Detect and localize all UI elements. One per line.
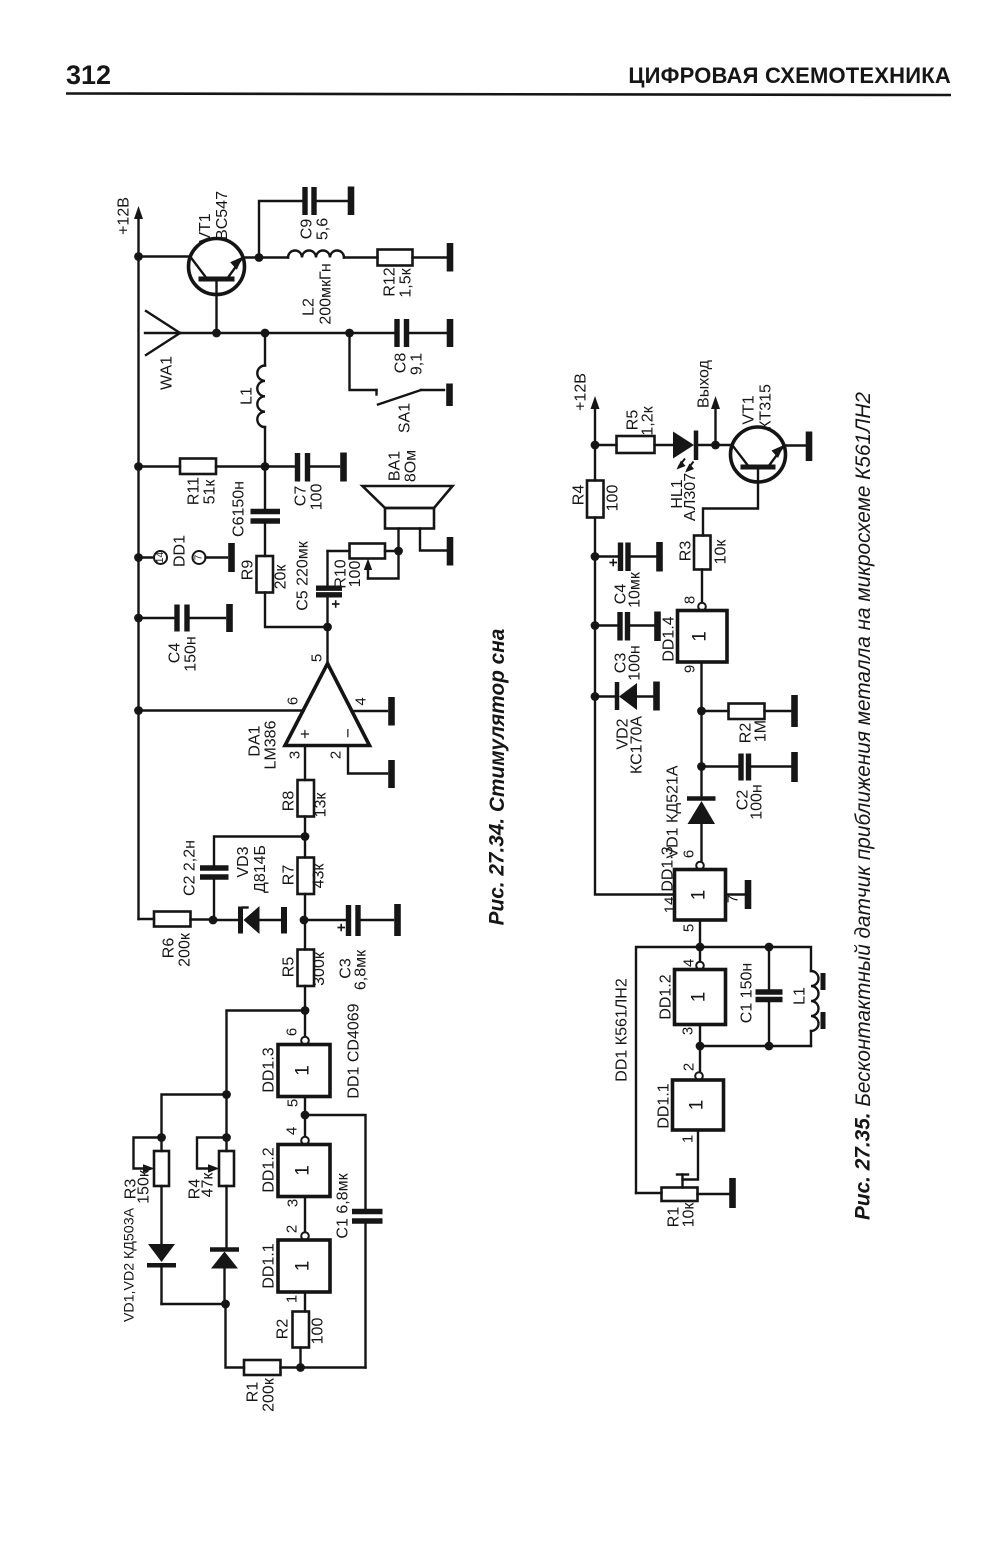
svg-text:8: 8 bbox=[682, 596, 699, 604]
svg-text:43к: 43к bbox=[311, 863, 328, 889]
svg-text:R9: R9 bbox=[240, 560, 257, 581]
svg-text:10к: 10к bbox=[713, 539, 730, 565]
svg-text:100: 100 bbox=[347, 561, 364, 588]
svg-text:VD1 КД521А: VD1 КД521А bbox=[665, 765, 682, 858]
inverter DD1.2 bbox=[278, 1115, 330, 1197]
resistor R2 1M bbox=[702, 704, 791, 720]
inverter DD1.2 bbox=[675, 947, 726, 1025]
svg-text:Выход: Выход bbox=[696, 359, 713, 408]
ground DD1 pin7 bbox=[228, 543, 235, 572]
header rule bbox=[66, 94, 951, 96]
svg-text:WA1: WA1 bbox=[159, 356, 176, 390]
inductor L1 bbox=[257, 333, 265, 467]
capacitor C9 bbox=[305, 187, 347, 215]
svg-text:1: 1 bbox=[284, 1295, 301, 1303]
svg-text:DD1.1: DD1.1 bbox=[261, 1243, 278, 1288]
svg-text:1: 1 bbox=[687, 1100, 708, 1111]
svg-text:100: 100 bbox=[309, 484, 326, 511]
wire rail bbox=[594, 626, 596, 697]
wire emitter node up to C9 bbox=[259, 201, 303, 258]
node R11/C7/C6 bbox=[261, 462, 270, 471]
capacitor C2 100н bbox=[702, 754, 791, 781]
wire main bus y=333 bbox=[180, 332, 395, 334]
svg-text:DA1: DA1 bbox=[247, 725, 264, 756]
ground VD2 bbox=[653, 682, 660, 711]
node R3/R4 top bbox=[222, 1090, 231, 1099]
capacitor C8 bbox=[397, 319, 446, 347]
node DA1 output bbox=[323, 623, 332, 632]
svg-text:C4: C4 bbox=[167, 643, 184, 664]
svg-text:Рис. 27.34. Стимулятор сна: Рис. 27.34. Стимулятор сна bbox=[486, 629, 509, 926]
+12V supply arrow bbox=[134, 206, 143, 257]
node VD bottom bbox=[221, 1300, 230, 1309]
svg-text:47к: 47к bbox=[200, 1172, 217, 1198]
svg-text:L1: L1 bbox=[792, 987, 809, 1005]
capacitor C1 6,8мк bbox=[352, 1212, 383, 1368]
svg-text:9: 9 bbox=[682, 665, 699, 673]
capacitor C2 bbox=[200, 837, 305, 921]
svg-text:6: 6 bbox=[285, 697, 302, 705]
resistor R11 bbox=[139, 459, 266, 475]
ground C9 bbox=[348, 187, 355, 216]
resistor R1 bbox=[226, 1304, 301, 1375]
node rail-DD1 pin14 bbox=[134, 553, 143, 562]
inductor L2 bbox=[259, 251, 378, 258]
output arrow Выход bbox=[711, 396, 720, 445]
svg-text:6: 6 bbox=[284, 1028, 301, 1036]
ground pin 7 bbox=[745, 880, 752, 909]
svg-text:АЛ307: АЛ307 bbox=[682, 473, 699, 521]
resistor R12 bbox=[378, 250, 447, 266]
capacitor C7 bbox=[265, 453, 339, 482]
svg-text:VT1: VT1 bbox=[197, 213, 214, 242]
svg-text:DD1 К561ЛН2: DD1 К561ЛН2 bbox=[614, 978, 631, 1082]
svg-text:VD1,VD2 КД503А: VD1,VD2 КД503А bbox=[122, 1207, 138, 1322]
svg-text:LM386: LM386 bbox=[263, 720, 280, 769]
svg-text:C7: C7 bbox=[293, 486, 310, 507]
zener VD3 Д814Б bbox=[214, 906, 284, 934]
svg-text:7: 7 bbox=[194, 554, 205, 560]
resistor R7 bbox=[298, 837, 315, 921]
svg-text:1: 1 bbox=[293, 1065, 314, 1076]
wire feedback to C1 bbox=[305, 1115, 366, 1208]
svg-text:5,6: 5,6 bbox=[315, 218, 332, 240]
svg-text:КС170А: КС170А bbox=[629, 716, 646, 774]
wire tank right bbox=[700, 947, 811, 971]
ground R1 bbox=[729, 1178, 736, 1208]
svg-text:5: 5 bbox=[285, 1099, 302, 1107]
svg-text:DD1.2: DD1.2 bbox=[658, 974, 675, 1019]
svg-text:ЦИФРОВАЯ СХЕМОТЕХНИКА: ЦИФРОВАЯ СХЕМОТЕХНИКА bbox=[628, 63, 951, 88]
wire DD1.1 pin1 bbox=[304, 1292, 306, 1312]
resistor R4 bbox=[587, 445, 604, 557]
svg-text:SA1: SA1 bbox=[397, 403, 414, 433]
wire pin 3 bbox=[304, 746, 306, 781]
node rail-VT1 bbox=[134, 252, 143, 261]
wire DD1.2 pin3 bbox=[699, 1025, 701, 1047]
inverter DD1.1 bbox=[278, 1232, 330, 1292]
node C1 top bbox=[765, 943, 774, 952]
node R8/C2/R7 bbox=[301, 832, 310, 841]
wire tank bottom bbox=[700, 1045, 811, 1047]
wire pin 7 bbox=[726, 893, 745, 895]
ground C4 bbox=[656, 542, 663, 572]
potentiometer R4 bbox=[197, 1138, 234, 1187]
node rail-pin6 bbox=[134, 706, 143, 715]
ground C8 bbox=[447, 319, 454, 347]
node C8/SA1 bbox=[345, 329, 354, 338]
resistor R6 bbox=[139, 912, 214, 927]
svg-text:C9: C9 bbox=[299, 219, 316, 240]
transistor VT1 КТ315 bbox=[703, 427, 805, 536]
node R5/DD1.3out bbox=[301, 1006, 310, 1015]
node base junction bbox=[212, 329, 221, 338]
svg-text:20к: 20к bbox=[273, 564, 290, 590]
inverter DD1.1 bbox=[673, 1046, 724, 1130]
node rail-R11 bbox=[134, 462, 143, 471]
svg-text:8Ом: 8Ом bbox=[403, 450, 420, 482]
node rail/VD2 bbox=[591, 692, 600, 701]
ground pin4 bbox=[388, 697, 395, 726]
wire +12V rail bbox=[137, 257, 139, 920]
wire DD1.2 pin3 to DD1.1 bbox=[304, 1197, 306, 1233]
node rail/R5 bbox=[591, 441, 600, 450]
svg-text:+12В: +12В bbox=[573, 373, 590, 411]
svg-text:Д814Б: Д814Б bbox=[252, 845, 269, 893]
node R3 wiper tie bbox=[157, 1133, 166, 1142]
capacitor C3 100н bbox=[595, 612, 654, 641]
svg-text:200к: 200к bbox=[261, 1377, 278, 1412]
svg-text:КТ315: КТ315 bbox=[758, 384, 775, 430]
node output bbox=[711, 441, 720, 450]
node C1 bottom bbox=[765, 1042, 774, 1051]
ground VT1 emitter bbox=[806, 432, 813, 462]
svg-text:9,1: 9,1 bbox=[409, 353, 426, 375]
svg-text:1М: 1М bbox=[753, 720, 770, 742]
svg-text:100: 100 bbox=[605, 485, 622, 512]
svg-text:DD1.3: DD1.3 bbox=[660, 846, 677, 891]
svg-text:DD1.1: DD1.1 bbox=[656, 1083, 673, 1128]
node VT1 emitter junction bbox=[255, 253, 264, 262]
ground pin2 bbox=[388, 760, 395, 788]
svg-text:BC547: BC547 bbox=[214, 191, 231, 240]
svg-text:1: 1 bbox=[689, 890, 710, 901]
svg-text:2: 2 bbox=[328, 751, 345, 759]
wire pin 4 bbox=[352, 710, 388, 712]
capacitor C4 10мк bbox=[595, 543, 656, 572]
svg-text:100н: 100н bbox=[627, 645, 644, 681]
svg-text:1: 1 bbox=[680, 1135, 697, 1143]
capacitor C3 6,8мк bbox=[305, 905, 393, 936]
ground C3 bbox=[654, 612, 661, 642]
svg-text:4: 4 bbox=[284, 1127, 301, 1135]
node R2/R1/C1 bbox=[296, 1363, 305, 1372]
capacitor C6 bbox=[251, 467, 281, 557]
inverter DD1.3 bbox=[278, 1011, 330, 1097]
wire VD1-VD2 bottom bbox=[162, 1303, 226, 1305]
svg-text:1: 1 bbox=[293, 1165, 314, 1176]
svg-text:10к: 10к bbox=[681, 1202, 698, 1228]
diode VD1 bbox=[147, 1186, 176, 1304]
svg-text:R3: R3 bbox=[678, 541, 695, 562]
DD1 power pins 14/7 bbox=[139, 551, 228, 564]
inverter DD1.3 bbox=[675, 862, 726, 920]
svg-text:R8: R8 bbox=[281, 791, 298, 812]
diode VD2 bbox=[210, 1186, 239, 1304]
svg-text:4: 4 bbox=[353, 697, 370, 705]
svg-text:2: 2 bbox=[284, 1225, 301, 1233]
svg-text:L1: L1 bbox=[239, 387, 256, 405]
svg-text:300к: 300к bbox=[311, 951, 328, 986]
+12V supply arrow bbox=[591, 396, 600, 445]
svg-text:+: + bbox=[328, 599, 345, 608]
op-amp DA1 LM386 bbox=[285, 627, 370, 746]
svg-text:C8: C8 bbox=[393, 353, 410, 374]
node VD3/R7/C3/R5 bbox=[300, 916, 309, 925]
svg-text:14: 14 bbox=[662, 897, 679, 914]
node pin5/pin4/C1 bbox=[301, 1111, 310, 1120]
wire pin 6 bbox=[139, 709, 304, 711]
svg-text:R1: R1 bbox=[245, 1382, 262, 1403]
ground C7 bbox=[340, 453, 347, 482]
trimmer R1 10к bbox=[636, 1175, 729, 1202]
capacitor C1 150н bbox=[756, 947, 783, 1046]
resistor R8 bbox=[298, 780, 315, 837]
svg-text:DD1.2: DD1.2 bbox=[261, 1147, 278, 1192]
svg-text:R6: R6 bbox=[161, 938, 178, 959]
wire DD1.3 pin5 bbox=[699, 920, 701, 947]
wire bottom to C1 bbox=[301, 1366, 366, 1368]
inductor L1 bbox=[811, 971, 823, 1046]
svg-text:200к: 200к bbox=[177, 932, 194, 967]
svg-text:R4: R4 bbox=[571, 485, 588, 506]
switch SA1 bbox=[350, 333, 445, 405]
resistor R2 bbox=[293, 1312, 310, 1368]
wire feedback left bbox=[636, 947, 700, 1193]
svg-text:DD1 CD4069: DD1 CD4069 bbox=[346, 1003, 363, 1098]
svg-text:1,5к: 1,5к bbox=[398, 267, 415, 297]
svg-text:С6150н: С6150н bbox=[231, 481, 248, 537]
wire node to R3 bbox=[162, 1095, 227, 1152]
svg-text:13к: 13к bbox=[313, 792, 330, 818]
wire DD1.4 pin9 bbox=[700, 662, 702, 711]
speaker BA1 bbox=[363, 486, 453, 551]
node R10/BA1 bbox=[394, 547, 403, 556]
svg-text:200мкГн: 200мкГн bbox=[318, 263, 335, 324]
ground BA1 bbox=[447, 537, 454, 566]
node C2/R6/VD3 bbox=[209, 916, 218, 925]
ground SA1 bbox=[446, 384, 453, 407]
resistor R9 bbox=[257, 556, 328, 627]
svg-text:312: 312 bbox=[66, 60, 111, 90]
svg-text:DD1.4: DD1.4 bbox=[661, 616, 678, 661]
svg-text:1: 1 bbox=[690, 631, 711, 642]
node C2/VD1 bbox=[697, 762, 706, 771]
svg-text:C1 150н: C1 150н bbox=[739, 963, 756, 1023]
svg-text:R12: R12 bbox=[382, 267, 399, 296]
diode VD1 КД521А bbox=[687, 767, 716, 862]
ground C2 bbox=[791, 752, 798, 782]
wire to R3/R4 branch bbox=[227, 1011, 306, 1095]
node R4 wiper tie bbox=[222, 1133, 231, 1142]
svg-text:2: 2 bbox=[681, 1063, 698, 1071]
svg-text:150к: 150к bbox=[136, 1169, 153, 1204]
svg-text:C1 6,8мк: C1 6,8мк bbox=[335, 1172, 352, 1238]
svg-text:DD1.3: DD1.3 bbox=[261, 1047, 278, 1092]
svg-text:+: + bbox=[333, 923, 350, 932]
svg-text:4: 4 bbox=[681, 959, 698, 967]
wire rail bbox=[594, 557, 596, 626]
svg-text:100н: 100н bbox=[749, 784, 766, 820]
svg-text:R2: R2 bbox=[275, 1319, 292, 1340]
svg-text:+: + bbox=[296, 729, 315, 739]
wire DD1.1 pin1 to R1 wiper bbox=[683, 1130, 699, 1180]
svg-text:3: 3 bbox=[287, 751, 304, 759]
svg-text:+: + bbox=[605, 558, 622, 567]
svg-text:VT1: VT1 bbox=[741, 395, 758, 424]
resistor R5 bbox=[595, 436, 673, 453]
ground R12 bbox=[447, 243, 454, 272]
svg-text:51к: 51к bbox=[202, 479, 219, 505]
svg-text:R7: R7 bbox=[281, 865, 298, 886]
svg-text:VD3: VD3 bbox=[235, 846, 252, 877]
wire node to R4 bbox=[225, 1095, 227, 1152]
svg-text:BA1: BA1 bbox=[387, 451, 404, 481]
svg-text:14: 14 bbox=[155, 552, 166, 564]
node pin5/pin4/tank bbox=[696, 943, 705, 952]
svg-text:−: − bbox=[339, 728, 358, 738]
svg-text:DD1: DD1 bbox=[172, 535, 189, 567]
svg-text:10мк: 10мк bbox=[627, 571, 644, 608]
svg-text:5: 5 bbox=[309, 654, 326, 662]
ground C4 bbox=[226, 604, 233, 632]
wire rail to pin14 bbox=[595, 697, 675, 895]
svg-text:R5: R5 bbox=[281, 957, 298, 978]
svg-text:3: 3 bbox=[680, 1027, 697, 1035]
potentiometer R3 bbox=[134, 1138, 170, 1187]
node rail-C4 bbox=[134, 614, 143, 623]
svg-text:С2 2,2н: С2 2,2н bbox=[182, 840, 199, 896]
wire rail to VT1 collector bbox=[139, 255, 190, 257]
svg-text:1,2к: 1,2к bbox=[640, 405, 657, 435]
node L1 top bbox=[261, 329, 270, 338]
resistor R3 bbox=[694, 536, 711, 603]
LED HL1 АЛ307 bbox=[673, 431, 716, 473]
node rail/C4 bbox=[591, 552, 600, 561]
svg-text:3: 3 bbox=[285, 1199, 302, 1207]
capacitor C4 bbox=[139, 605, 226, 632]
ground C3 bbox=[394, 904, 401, 936]
svg-text:100: 100 bbox=[310, 1318, 327, 1345]
svg-text:6,8мк: 6,8мк bbox=[353, 949, 370, 990]
svg-text:+12В: +12В bbox=[116, 197, 133, 235]
svg-text:L2: L2 bbox=[301, 298, 318, 316]
wire DD1.3 pin5 bbox=[304, 1097, 306, 1116]
wire pin 2 bbox=[348, 746, 387, 774]
svg-text:6: 6 bbox=[681, 850, 698, 858]
svg-text:7: 7 bbox=[725, 895, 742, 903]
node rail/C3 bbox=[591, 621, 600, 630]
potentiometer R10 bbox=[328, 544, 399, 579]
svg-text:С5 220мк: С5 220мк bbox=[295, 540, 312, 611]
ground R2 bbox=[791, 695, 798, 727]
svg-text:5: 5 bbox=[681, 924, 698, 932]
antenna WA1 bbox=[145, 311, 180, 355]
zener VD2 КС170А bbox=[595, 682, 653, 710]
svg-text:R11: R11 bbox=[186, 477, 203, 505]
node pin3/tank bottom bbox=[696, 1042, 705, 1051]
svg-text:Рис. 27.35. Бесконтактный датч: Рис. 27.35. Бесконтактный датчик приближ… bbox=[852, 392, 875, 1220]
resistor R5 bbox=[298, 920, 315, 1011]
inverter DD1.4 bbox=[678, 603, 728, 662]
svg-text:1: 1 bbox=[293, 1261, 314, 1272]
svg-text:150н: 150н bbox=[183, 636, 200, 672]
wire node to node bbox=[700, 711, 702, 767]
transistor VT1 BC547 bbox=[189, 239, 260, 334]
capacitor C5 220мк bbox=[316, 551, 345, 627]
svg-text:1: 1 bbox=[689, 992, 710, 1003]
node pin9/R2 bbox=[697, 707, 706, 716]
